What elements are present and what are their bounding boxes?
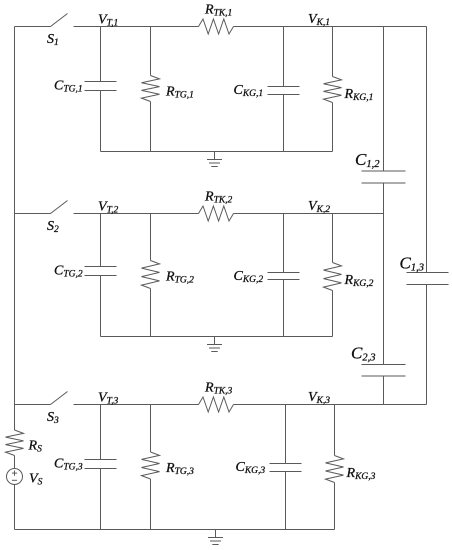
svg-text:VS: VS xyxy=(29,472,43,488)
capacitor CKG2 xyxy=(268,214,300,337)
svg-text:RTG,1: RTG,1 xyxy=(165,85,194,101)
wire node VT1 to resistor RTK1 xyxy=(74,26,199,28)
resistor RKG3 xyxy=(326,405,344,530)
wire resistor RTK1 to node VK1 xyxy=(234,26,427,28)
svg-text:C1,3: C1,3 xyxy=(400,254,424,274)
capacitor CTG2 xyxy=(85,214,117,337)
wire right rail node VK1 to capacitor C13 xyxy=(426,27,428,273)
svg-text:VK,2: VK,2 xyxy=(308,199,330,215)
svg-text:RTK,3: RTK,3 xyxy=(204,381,233,397)
svg-text:RS: RS xyxy=(28,439,43,455)
wire node VK1 to capacitor C12 xyxy=(383,27,385,172)
capacitor CTG1 xyxy=(85,27,117,152)
svg-text:CTG,2: CTG,2 xyxy=(54,264,83,280)
wire source VS to ground rail xyxy=(14,485,16,530)
svg-text:S3: S3 xyxy=(47,410,59,426)
capacitor CTG3 xyxy=(85,405,117,530)
resistor RTK1 xyxy=(199,19,234,34)
svg-text:RTK,2: RTK,2 xyxy=(204,190,233,206)
svg-text:RTG,2: RTG,2 xyxy=(165,270,194,286)
svg-text:VT,3: VT,3 xyxy=(98,391,119,407)
svg-text:VK,3: VK,3 xyxy=(308,390,330,406)
svg-text:RKG,3: RKG,3 xyxy=(346,466,376,482)
wire resistor RS to source VS xyxy=(14,456,16,469)
wire node VT2 to resistor RTK2 xyxy=(74,213,199,215)
wire node VT3 to resistor RTK3 xyxy=(74,404,199,406)
svg-text:RTK,1: RTK,1 xyxy=(204,3,232,19)
capacitor CKG3 xyxy=(270,405,302,530)
svg-text:RKG,2: RKG,2 xyxy=(344,273,374,289)
ground row 3 xyxy=(208,530,223,545)
wire resistor RTK2 to node VK2 xyxy=(234,213,384,215)
resistor RTK2 xyxy=(199,206,234,221)
wire ground rail row 1 xyxy=(101,151,333,153)
wire left rail xyxy=(14,27,16,431)
svg-text:CKG,1: CKG,1 xyxy=(234,83,264,99)
resistor RS xyxy=(6,430,24,456)
voltage source VS xyxy=(7,469,23,485)
wire capacitor C23 to node VK3 xyxy=(383,376,385,405)
resistor RKG2 xyxy=(324,214,342,337)
wire capacitor C12 to node VK2 xyxy=(383,183,385,214)
svg-text:VT,1: VT,1 xyxy=(98,13,118,29)
capacitor C12 xyxy=(362,171,406,183)
capacitor C13 xyxy=(407,273,449,285)
svg-text:CKG,3: CKG,3 xyxy=(236,460,266,476)
wire node VK2 to capacitor C23 xyxy=(383,214,385,365)
capacitor C23 xyxy=(362,365,406,377)
wire ground rail row 2 xyxy=(101,336,333,338)
svg-text:S2: S2 xyxy=(47,219,59,235)
svg-text:C1,2: C1,2 xyxy=(355,150,380,170)
svg-text:CTG,3: CTG,3 xyxy=(54,457,83,473)
switch S1 xyxy=(15,14,68,27)
svg-text:RKG,1: RKG,1 xyxy=(344,87,374,103)
switch S3 xyxy=(15,392,68,405)
svg-text:VT,2: VT,2 xyxy=(98,200,119,216)
resistor RKG1 xyxy=(324,27,342,152)
wire resistor RTK3 to node VK3 xyxy=(234,404,427,406)
svg-text:CKG,2: CKG,2 xyxy=(234,269,264,285)
resistor RTG2 xyxy=(142,214,160,337)
resistor RTG3 xyxy=(142,405,160,530)
svg-text:S1: S1 xyxy=(47,32,59,48)
wire ground rail row 3 xyxy=(15,529,335,531)
svg-text:RTG,3: RTG,3 xyxy=(165,461,194,477)
resistor RTK3 xyxy=(199,397,234,412)
capacitor CKG1 xyxy=(268,27,300,152)
ground row 1 xyxy=(207,152,222,167)
svg-text:CTG,1: CTG,1 xyxy=(54,79,83,95)
svg-text:C2,3: C2,3 xyxy=(351,344,375,364)
switch S2 xyxy=(15,201,68,214)
ground row 2 xyxy=(207,337,222,352)
svg-text:VK,1: VK,1 xyxy=(308,12,330,28)
wire capacitor C13 to node VK3 xyxy=(426,285,428,405)
resistor RTG1 xyxy=(142,27,160,152)
